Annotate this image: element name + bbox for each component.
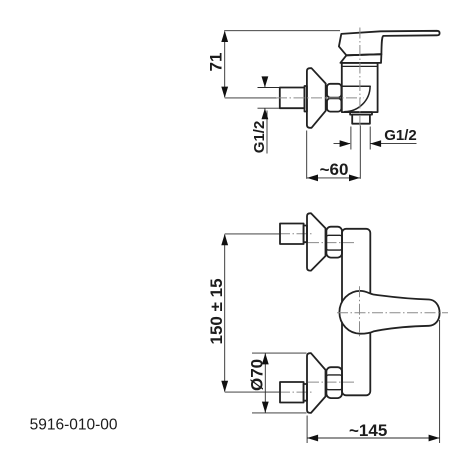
wire collar under handle xyxy=(340,54,381,63)
svg-text:~145: ~145 xyxy=(349,421,387,440)
hex nut bottom inlet (plan) xyxy=(326,367,342,398)
svg-text:G1/2: G1/2 xyxy=(384,127,417,144)
wire body inner step line xyxy=(342,65,378,67)
wire extension bottom inlet axis xyxy=(225,391,280,393)
wire outlet stub G1/2 xyxy=(352,115,370,124)
wire extension line to lever top xyxy=(224,30,340,32)
wire extension top inlet axis xyxy=(225,233,280,235)
dimension line 71 xyxy=(224,32,226,98)
centerline top inlet nut axis (plan) xyxy=(308,242,354,244)
arrowhead G1/2 pipe upper xyxy=(262,76,269,87)
wire top inlet neck xyxy=(304,226,307,243)
centerline bottom inlet nut axis (plan) xyxy=(308,381,354,383)
arrowhead ~145 left xyxy=(307,435,318,442)
wire extension esc top edge xyxy=(252,352,307,354)
centerline handle horizontal (plan) xyxy=(337,312,448,314)
arrowhead 71 top xyxy=(221,31,228,42)
wire top inlet pipe xyxy=(280,224,304,245)
wire extension esc base to ~60 xyxy=(306,131,308,179)
dimension line G1/2 outlet left tail xyxy=(334,143,351,145)
handle knob and lever (plan, white filled to occlude body) xyxy=(339,291,439,334)
escutcheon top (plan) xyxy=(307,213,326,270)
arrowhead G1/2 pipe lower xyxy=(262,108,269,119)
svg-text:Ø70: Ø70 xyxy=(248,359,267,391)
wire outlet edge extension right xyxy=(369,127,371,150)
wire inlet pipe stub xyxy=(280,88,305,109)
dimension line ~145 xyxy=(307,437,440,439)
wire extension line at pipe axis xyxy=(225,97,277,99)
wire body bar (plan) xyxy=(342,229,370,395)
wire extension handle tip to ~145 xyxy=(439,320,441,443)
centerline top inlet pipe (plan) xyxy=(279,233,313,235)
arrowhead G1/2 outlet left xyxy=(340,140,351,147)
centerline pipe axis (side view) xyxy=(276,97,364,99)
wire main body rectangle xyxy=(342,63,378,112)
escutcheon bottom (plan) xyxy=(307,353,326,413)
centerline body vertical axis (side view) xyxy=(359,28,361,126)
dimension line G1/2 outlet right tail with underline xyxy=(371,143,417,145)
wire extension wall plane to ~145 xyxy=(306,416,308,444)
arrowhead ~60 right xyxy=(349,175,360,182)
wire outlet edge extension left xyxy=(350,127,352,150)
svg-text:G1/2: G1/2 xyxy=(251,121,268,154)
arrowhead 71 bottom xyxy=(221,87,228,98)
hex nut bottom middle facet xyxy=(326,375,342,390)
wire outlet lip xyxy=(350,112,372,115)
wire G1/2 label underline (rotated) xyxy=(266,111,268,154)
centerline knob vertical (plan) xyxy=(359,286,361,337)
wire body inner quarter arc xyxy=(345,86,371,111)
arrowhead ~60 left xyxy=(307,175,318,182)
dimension line G1/2 lower segment with text underline xyxy=(264,109,266,120)
arrowhead O70 bottom xyxy=(262,402,269,413)
svg-text:~60: ~60 xyxy=(320,160,349,179)
svg-text:71: 71 xyxy=(207,53,226,72)
wire bottom inlet pipe xyxy=(280,382,304,403)
hex nut lower facet (side view) xyxy=(327,98,341,111)
wire body inner horizontal line xyxy=(342,85,370,87)
wire handle block + lever arm outline xyxy=(339,31,440,56)
hex nut upper facet (side view) xyxy=(327,84,341,98)
arrowhead ~145 right xyxy=(429,435,440,442)
dimension line O70 xyxy=(264,353,266,412)
wire extension pipe bottom edge xyxy=(258,107,280,109)
wire extension esc bottom edge xyxy=(252,412,307,414)
arrowhead 150 top xyxy=(221,234,228,245)
dimension line 150 +- 15 xyxy=(224,235,226,392)
hex nut top inlet (plan) xyxy=(326,227,342,258)
centerline bottom inlet pipe (plan) xyxy=(279,391,313,393)
wire pipe flange ring xyxy=(305,86,307,112)
escutcheon cone (side view) xyxy=(307,68,326,128)
hex nut top middle facet xyxy=(326,235,342,250)
wire outlet centerline lower solid part xyxy=(359,126,361,179)
dimension line ~60 xyxy=(307,177,360,179)
wire extension pipe top edge xyxy=(258,87,280,89)
wire bottom inlet neck xyxy=(304,384,307,401)
arrowhead O70 top xyxy=(262,353,269,364)
svg-text:150 ± 15: 150 ± 15 xyxy=(207,278,226,344)
svg-text:5916-010-00: 5916-010-00 xyxy=(30,416,118,433)
arrowhead 150 bottom xyxy=(221,381,228,392)
arrowhead G1/2 outlet right xyxy=(370,140,381,147)
dimension line G1/2 upper segment xyxy=(264,77,266,88)
